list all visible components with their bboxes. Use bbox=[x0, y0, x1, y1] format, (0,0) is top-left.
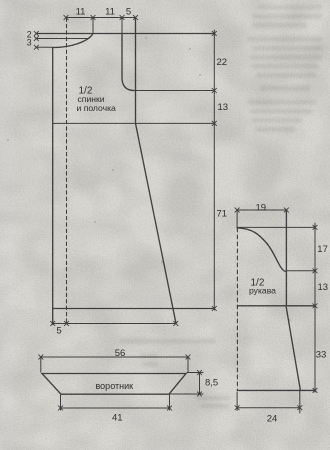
collar top dimension line 56 bbox=[41, 356, 188, 358]
horizontal line y=123 bbox=[53, 122, 215, 124]
body top dimension line 11+11+5 bbox=[66, 17, 136, 19]
collar labels bbox=[96, 348, 219, 424]
extension y=227.4 bbox=[237, 226, 315, 228]
sleeve cap curve bbox=[237, 228, 286, 272]
underarm line bbox=[237, 305, 315, 307]
bottom dimension line (5) bbox=[53, 323, 176, 325]
sleeve top dimension line 19 bbox=[237, 209, 286, 211]
collar bottom dimension line 41 bbox=[61, 407, 170, 409]
8,5 dimension line bbox=[199, 373, 201, 395]
sleeve right vertical bbox=[285, 210, 287, 306]
extension left bbox=[236, 210, 238, 228]
dashed centre-front fold line bbox=[66, 18, 68, 323]
right dimension line 22/13/71 bbox=[213, 30, 215, 310]
armhole vertical + corner curve bbox=[122, 34, 136, 91]
bottom hem line bbox=[53, 308, 215, 310]
left edge of body bbox=[52, 47, 54, 324]
vertical line x=135.5 armhole edge bbox=[135, 18, 137, 124]
paper specks bbox=[7, 37, 290, 320]
collar outline trapezoid bbox=[42, 374, 186, 395]
extension left bbox=[40, 357, 42, 372]
front-neck line y=47.3 bbox=[36, 46, 53, 48]
neck mid line y=38.5 bbox=[36, 38, 89, 40]
sleeve bottom dimension line 24 bbox=[237, 407, 300, 409]
extension line x=122 shoulder end bbox=[121, 18, 123, 34]
sleeve labels bbox=[249, 203, 328, 425]
back-neck top line y=33.5 bbox=[36, 33, 214, 35]
sleeve seam slant bbox=[286, 306, 300, 391]
side seam slant bbox=[136, 123, 177, 323]
cuff extensions bbox=[237, 390, 300, 413]
extension y=270.8 bbox=[286, 270, 315, 272]
front neckline curve bbox=[53, 34, 93, 48]
cuff line bbox=[237, 389, 315, 391]
dashed sleeve fold line bbox=[236, 228, 238, 390]
armhole depth extension line y=90.3 bbox=[131, 90, 214, 92]
extension right bbox=[187, 357, 189, 372]
bleed-through text right column bbox=[120, 5, 322, 408]
body labels bbox=[27, 7, 228, 337]
collar ticks bbox=[38, 355, 202, 411]
bottom extensions bbox=[61, 395, 170, 410]
body tick marks bbox=[34, 15, 217, 326]
8,5 extension lines bbox=[170, 373, 203, 395]
extension line x=93 bbox=[92, 18, 94, 34]
sleeve right dimension line 17/13/33 bbox=[314, 223, 316, 392]
sleeve ticks bbox=[235, 208, 318, 411]
